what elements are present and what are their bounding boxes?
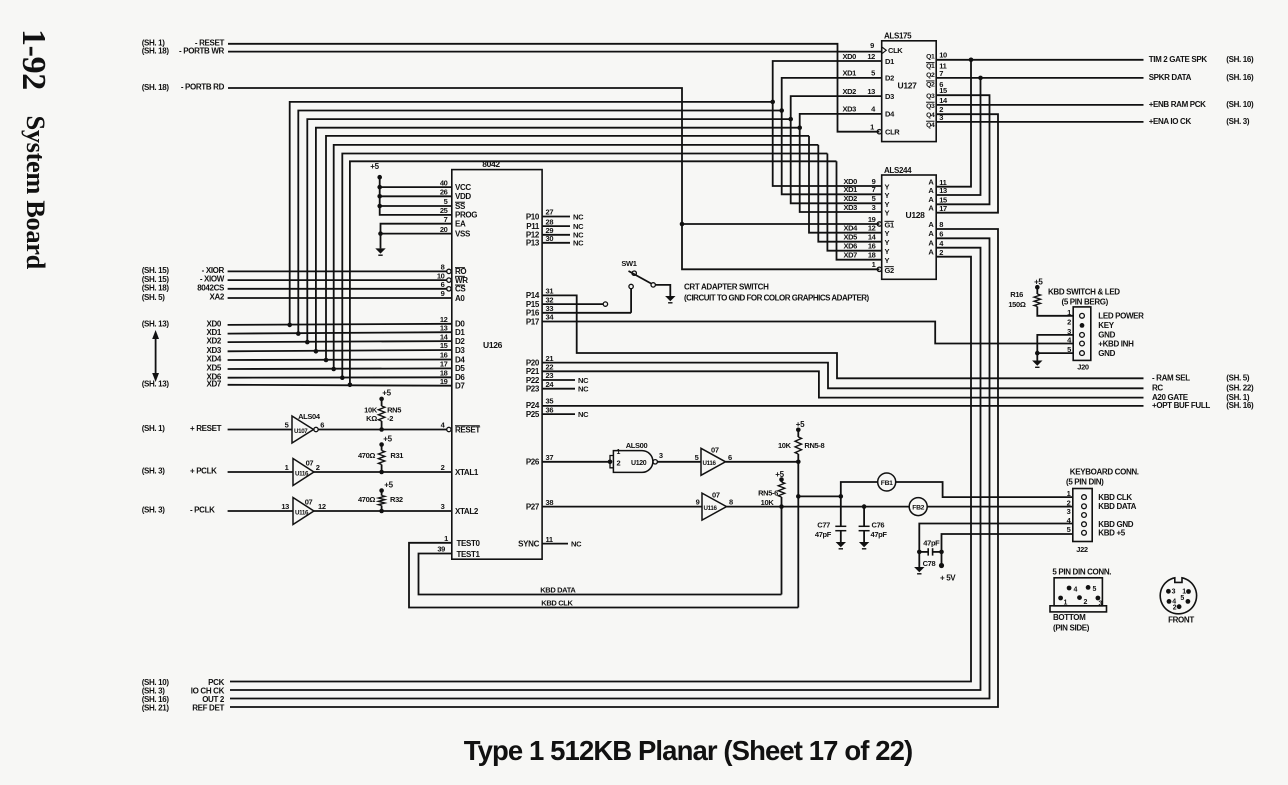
net P26 to U120 [542, 461, 610, 463]
svg-text:10: 10 [939, 51, 947, 60]
ground (SW1) [665, 296, 675, 301]
svg-text:22: 22 [546, 363, 554, 372]
svg-text:U116: U116 [295, 510, 309, 517]
svg-text:33: 33 [546, 304, 554, 313]
svg-text:FB2: FB2 [912, 504, 924, 511]
svg-text:Q1: Q1 [926, 54, 935, 61]
wire SW1 to ground [655, 285, 670, 296]
net XD2 (bus: 8042 D2, U127/U128) [228, 341, 452, 342]
svg-text:- RAM SEL: - RAM SEL [1152, 374, 1190, 383]
svg-text:2: 2 [1067, 498, 1071, 507]
svg-text:XTAL1: XTAL1 [455, 468, 479, 477]
wire XD4 bus L [326, 136, 809, 360]
wire FB1 to J22 pin1 KBD CLK [896, 482, 1073, 497]
connector DIN bottom view [1054, 578, 1102, 606]
svg-text:ALS175: ALS175 [884, 32, 912, 41]
svg-text:24: 24 [546, 380, 555, 389]
svg-text:1: 1 [1064, 600, 1068, 607]
wire VCC [380, 186, 452, 188]
svg-text:XD2: XD2 [842, 87, 856, 96]
wire KBD CLK node down [797, 462, 799, 608]
net XD7 (bus: 8042 D7, U127/U128) [228, 384, 452, 387]
svg-text:27: 27 [546, 208, 554, 217]
svg-text:(SH. 13): (SH. 13) [142, 319, 170, 328]
chip U126 8042 body [452, 170, 542, 560]
net P20 to RC (SH.22) [542, 363, 1143, 389]
wire Q3 to U128 pin 15 [936, 95, 989, 204]
svg-text:SW1: SW1 [621, 259, 636, 268]
svg-text:GND: GND [1098, 349, 1115, 358]
svg-text:Y: Y [885, 209, 890, 218]
net P15 test point [542, 303, 603, 305]
wire U107 out to RESET pin [318, 429, 447, 431]
svg-text:12: 12 [867, 52, 875, 61]
svg-text:P23: P23 [526, 385, 540, 394]
svg-text:System Board: System Board [21, 116, 51, 270]
junction XD6 bus riser [340, 375, 345, 380]
svg-text:D3: D3 [455, 346, 465, 355]
svg-text:07: 07 [711, 445, 719, 454]
svg-text:2: 2 [316, 463, 320, 472]
wire XD0 bus L [290, 102, 773, 325]
bus range arrow [155, 336, 157, 376]
junction C78 left [917, 550, 922, 555]
svg-text:NC: NC [578, 410, 589, 419]
svg-text:Q1: Q1 [926, 63, 935, 70]
junction XD2 at U127 riser [788, 117, 793, 122]
svg-text:7: 7 [939, 69, 943, 78]
svg-text:C76: C76 [872, 521, 885, 530]
wire XD4 drop to U128 [809, 136, 882, 233]
wire G1 enable branch [682, 223, 879, 225]
svg-text:8: 8 [939, 220, 943, 229]
junction XD0 bus riser [287, 323, 292, 328]
svg-text:11: 11 [546, 535, 553, 544]
svg-text:20: 20 [440, 225, 448, 234]
svg-text:R31: R31 [390, 451, 403, 460]
svg-text:17: 17 [939, 204, 947, 213]
svg-text:47pF: 47pF [815, 530, 832, 539]
svg-text:P13: P13 [526, 239, 540, 248]
svg-text:5: 5 [1093, 586, 1097, 593]
net +ENA IO CK (SH.3) [936, 121, 1143, 123]
svg-text:- XIOW: - XIOW [200, 275, 225, 284]
junction XD7 bus riser [348, 383, 353, 388]
svg-text:XD6: XD6 [843, 242, 857, 251]
svg-text:KBD CLK: KBD CLK [1098, 493, 1132, 502]
svg-text:- PCLK: - PCLK [190, 506, 215, 515]
junction XD2 bus riser [305, 340, 310, 345]
wire U116 out to XTAL1 [314, 471, 452, 473]
svg-text:U127: U127 [898, 81, 918, 91]
svg-text:XD1: XD1 [843, 185, 857, 194]
svg-text:3: 3 [1172, 589, 1176, 596]
svg-text:(5 PIN BERG): (5 PIN BERG) [1062, 298, 1109, 307]
junction VSS [378, 231, 383, 236]
svg-text:D4: D4 [455, 355, 465, 364]
svg-text:CLK: CLK [888, 46, 903, 55]
svg-text:Type 1 512KB Planar (Sheet 17: Type 1 512KB Planar (Sheet 17 of 22) [464, 735, 913, 766]
svg-text:13: 13 [440, 323, 448, 332]
svg-text:2: 2 [939, 248, 943, 257]
svg-text:2: 2 [1084, 599, 1088, 606]
svg-text:U107: U107 [294, 428, 308, 435]
svg-text:J20: J20 [1077, 363, 1089, 372]
svg-text:P15: P15 [526, 300, 540, 309]
svg-text:LED POWER: LED POWER [1098, 312, 1144, 321]
svg-text:NC: NC [573, 222, 584, 231]
junction XD5 bus riser [331, 367, 336, 372]
svg-text:XA2: XA2 [209, 293, 224, 302]
svg-text:XD1: XD1 [842, 69, 856, 78]
svg-text:Y: Y [885, 247, 890, 256]
svg-text:U126: U126 [483, 340, 503, 350]
svg-text:- XIOR: - XIOR [202, 266, 225, 275]
wire to FB1 [798, 482, 877, 496]
wire XD0 riser to U127 D1 and U128 [773, 61, 882, 186]
junction XD3 at U127 riser [797, 125, 802, 130]
connector J22 body [1073, 489, 1092, 542]
net SPKR DATA (SH.16) [936, 77, 1143, 79]
svg-text:8: 8 [441, 263, 445, 272]
svg-text:XD2: XD2 [206, 337, 221, 346]
net TIM 2 GATE SPK (SH.16) [936, 59, 1143, 61]
svg-text:16: 16 [440, 351, 448, 360]
svg-text:5: 5 [871, 69, 875, 78]
DIN front pins [1166, 589, 1171, 594]
svg-text:5 PIN DIN CONN.: 5 PIN DIN CONN. [1052, 568, 1111, 577]
svg-text:J22: J22 [1076, 545, 1088, 554]
svg-text:(SH. 16): (SH. 16) [1226, 401, 1254, 410]
svg-text:CS: CS [455, 285, 466, 294]
svg-text:1: 1 [1067, 308, 1071, 317]
svg-text:3: 3 [1099, 601, 1103, 608]
junction Q2 readback [978, 76, 983, 81]
svg-text:3: 3 [872, 203, 876, 212]
svg-text:+KBD INH: +KBD INH [1098, 339, 1134, 348]
svg-text:RN5-6: RN5-6 [758, 488, 778, 497]
junction C78 right [939, 550, 944, 555]
wire Q1 readback to U128 pin 11 [936, 60, 971, 187]
svg-text:D1: D1 [885, 57, 894, 66]
svg-text:RN5-8: RN5-8 [804, 441, 824, 450]
svg-text:- PORTB WR: - PORTB WR [179, 46, 225, 55]
svg-text:1: 1 [872, 260, 876, 269]
svg-text:(SH. 18): (SH. 18) [142, 46, 170, 55]
wire Q2 readback to U128 pin 13 [936, 78, 980, 195]
J22 pin contacts [1082, 495, 1087, 500]
svg-text:REF DET: REF DET [192, 704, 224, 713]
capacitor C76 47pF [863, 507, 865, 527]
svg-text:XD3: XD3 [842, 105, 856, 114]
svg-text:13: 13 [867, 87, 875, 96]
svg-text:BOTTOM: BOTTOM [1053, 613, 1086, 622]
svg-text:Q4: Q4 [926, 122, 935, 129]
svg-text:SS: SS [455, 202, 466, 211]
svg-text:(SH. 22): (SH. 22) [1226, 384, 1254, 393]
svg-text:+ENB RAM PCK: +ENB RAM PCK [1149, 100, 1206, 109]
svg-text:KBD DATA: KBD DATA [1098, 502, 1136, 511]
net XD4 (bus: 8042 D4, U127/U128) [228, 359, 452, 362]
svg-text:XD5: XD5 [843, 233, 857, 242]
svg-text:5: 5 [872, 194, 876, 203]
svg-text:KΩ: KΩ [366, 414, 377, 423]
svg-text:+ PCLK: + PCLK [190, 467, 217, 476]
svg-text:4: 4 [1074, 587, 1078, 594]
net P27 to U116 pin9 [542, 506, 702, 508]
svg-text:P14: P14 [526, 291, 540, 300]
svg-text:+OPT BUF FULL: +OPT BUF FULL [1152, 401, 1210, 410]
svg-text:14: 14 [440, 332, 449, 341]
svg-text:U128: U128 [906, 210, 926, 220]
svg-text:25: 25 [440, 206, 448, 215]
svg-text:-2: -2 [387, 414, 393, 423]
svg-text:+5: +5 [383, 435, 392, 444]
net TEST0 KBD CLK loop [409, 543, 798, 608]
svg-text:NC: NC [573, 212, 584, 221]
svg-text:470Ω: 470Ω [358, 451, 375, 460]
svg-text:39: 39 [437, 545, 445, 554]
svg-text:2: 2 [441, 463, 445, 472]
svg-text:C77: C77 [817, 521, 830, 530]
svg-text:21: 21 [546, 354, 554, 363]
svg-text:10: 10 [437, 271, 445, 280]
svg-text:VCC: VCC [455, 183, 471, 192]
svg-text:14: 14 [868, 233, 877, 242]
wire XD2 bus L [307, 119, 790, 342]
svg-text:14: 14 [939, 96, 948, 105]
junction RN5-2 [379, 427, 384, 432]
svg-text:TIM 2 GATE SPK: TIM 2 GATE SPK [1149, 55, 1208, 64]
svg-text:P21: P21 [526, 367, 540, 376]
svg-text:XD7: XD7 [843, 251, 857, 260]
svg-text:FB1: FB1 [881, 480, 893, 487]
svg-text:(SH. 1): (SH. 1) [142, 424, 166, 433]
svg-text:6: 6 [320, 421, 324, 430]
wire KBD GND to J22 pin4 [919, 524, 1073, 552]
junction U120 inputs 1-2 [608, 460, 613, 465]
svg-text:2: 2 [617, 458, 621, 467]
svg-text:07: 07 [306, 459, 314, 468]
junction XD1 at U127 riser [779, 108, 784, 113]
svg-text:XD5: XD5 [206, 364, 221, 373]
svg-text:+5: +5 [775, 470, 784, 479]
svg-text:(PIN SIDE): (PIN SIDE) [1053, 624, 1090, 633]
svg-text:U116: U116 [295, 471, 309, 478]
chip U128 ALS244 body [882, 175, 937, 279]
wire U116 out to XTAL2 [314, 510, 452, 512]
wire SS [380, 205, 452, 207]
svg-text:(SH. 16): (SH. 16) [1226, 55, 1254, 64]
svg-text:13: 13 [281, 502, 289, 511]
svg-text:ALS04: ALS04 [298, 412, 321, 421]
wire KBD DATA node down [781, 507, 783, 595]
svg-text:30: 30 [546, 234, 554, 243]
svg-text:15: 15 [440, 341, 448, 350]
svg-text:XD4: XD4 [206, 355, 221, 364]
svg-text:(5 PIN DIN): (5 PIN DIN) [1066, 478, 1104, 487]
DIN bottom pins [1067, 586, 1072, 591]
net XD6 (bus: 8042 D6, U127/U128) [228, 376, 452, 378]
svg-text:9: 9 [441, 289, 445, 298]
svg-text:23: 23 [546, 371, 554, 380]
svg-text:Q4: Q4 [926, 112, 935, 119]
svg-text:5: 5 [1067, 525, 1071, 534]
svg-text:KBD +5: KBD +5 [1098, 529, 1125, 538]
svg-text:(SH. 18): (SH. 18) [142, 284, 170, 293]
svg-text:3: 3 [659, 451, 663, 460]
svg-text:P25: P25 [526, 410, 540, 419]
svg-text:NC: NC [571, 539, 582, 548]
svg-text:1: 1 [1067, 489, 1071, 498]
svg-text:6: 6 [441, 280, 445, 289]
ground (C77) [836, 542, 846, 547]
svg-text:8042: 8042 [482, 159, 500, 169]
capacitor C77 47pF [840, 496, 842, 526]
wire XD1 riser to U127 D2 and U128 [782, 78, 882, 194]
wire KBD +5 to J22 pin5 [942, 534, 1073, 552]
svg-text:(SH. 18): (SH. 18) [142, 83, 170, 92]
svg-text:6: 6 [939, 230, 943, 239]
net P17 to +KBD INH [542, 322, 1073, 344]
wire XD3 riser to U127 D4 and U128 [800, 114, 882, 212]
junction RN5-8 [796, 460, 801, 465]
svg-text:XD3: XD3 [206, 346, 221, 355]
svg-text:P20: P20 [526, 358, 540, 367]
svg-text:A0: A0 [455, 294, 465, 303]
junction SS [377, 204, 382, 209]
svg-text:XD3: XD3 [843, 203, 857, 212]
svg-text:(SH. 3): (SH. 3) [1226, 117, 1250, 126]
svg-text:28: 28 [546, 217, 554, 226]
net P24 to +OPT BUF FULL (SH.16) [542, 405, 1143, 407]
svg-text:3: 3 [441, 502, 445, 511]
net P16 to SW1 [542, 312, 631, 314]
svg-text:+ 5V: + 5V [940, 574, 956, 583]
wire U116 out to RN5-8 node [726, 461, 799, 463]
svg-text:Q2: Q2 [926, 72, 935, 79]
svg-text:(SH. 21): (SH. 21) [142, 704, 170, 713]
svg-text:1: 1 [617, 449, 621, 456]
wire XD6 drop to U128 [827, 154, 881, 251]
svg-text:NC: NC [578, 385, 589, 394]
svg-text:32: 32 [546, 295, 554, 304]
junction XD0 at U127 riser [770, 100, 775, 105]
svg-text:37: 37 [546, 453, 554, 462]
svg-text:17: 17 [440, 360, 448, 369]
svg-text:Y: Y [885, 229, 890, 238]
svg-text:(SH. 10): (SH. 10) [1226, 100, 1254, 109]
svg-text:KBD CLK: KBD CLK [541, 599, 573, 608]
svg-text:3: 3 [1067, 507, 1071, 516]
svg-text:470Ω: 470Ω [358, 495, 375, 504]
svg-text:XD0: XD0 [206, 320, 221, 329]
svg-text:+5: +5 [370, 162, 379, 171]
svg-text:1: 1 [444, 534, 448, 543]
svg-text:+5: +5 [1034, 277, 1043, 286]
svg-text:5: 5 [285, 421, 289, 430]
svg-text:PROG: PROG [455, 211, 477, 220]
svg-text:- PORTB RD: - PORTB RD [181, 83, 225, 92]
wire FB2 to J22 pin2 KBD DATA [927, 506, 1073, 508]
wire XD7 drop to U128 [837, 161, 882, 259]
svg-text:1: 1 [285, 463, 289, 472]
junction VCC [377, 185, 382, 190]
svg-text:(CIRCUIT TO GND FOR COLOR GRAP: (CIRCUIT TO GND FOR COLOR GRAPHICS ADAPT… [684, 294, 870, 303]
svg-text:TEST0: TEST0 [457, 539, 481, 548]
svg-text:+5: +5 [796, 420, 805, 429]
svg-text:FRONT: FRONT [1168, 616, 1194, 625]
svg-text:(SH. 16): (SH. 16) [1226, 73, 1254, 82]
svg-text:EA: EA [455, 220, 466, 229]
svg-text:+ RESET: + RESET [190, 424, 222, 433]
connector DIN front view [1160, 578, 1196, 614]
svg-text:31: 31 [546, 287, 554, 296]
junction J20 ground [1035, 351, 1040, 356]
svg-text:5: 5 [444, 197, 448, 206]
net XD3 (bus: 8042 D3, U127/U128) [228, 350, 452, 351]
wire XD5 bus L [334, 145, 819, 369]
svg-text:35: 35 [546, 397, 554, 406]
svg-text:XD7: XD7 [206, 379, 221, 388]
capacitor C78 47pF [919, 551, 928, 553]
svg-text:7: 7 [444, 215, 448, 224]
svg-text:U116: U116 [703, 460, 717, 467]
net TEST1 KBD DATA loop [419, 554, 782, 595]
svg-text:XD0: XD0 [842, 52, 856, 61]
svg-text:Q2: Q2 [926, 82, 935, 89]
svg-text:P24: P24 [526, 401, 540, 410]
svg-text:1: 1 [870, 123, 874, 132]
svg-text:NC: NC [573, 239, 584, 248]
junction VDD [377, 194, 382, 199]
connector J20 body [1073, 307, 1091, 361]
svg-text:9: 9 [696, 498, 700, 507]
svg-text:47pF: 47pF [923, 538, 940, 547]
svg-text:VSS: VSS [455, 229, 471, 238]
svg-text:(SH. 15): (SH. 15) [142, 266, 170, 275]
svg-text:D1: D1 [455, 328, 465, 337]
junction XD3 bus riser [314, 349, 319, 354]
junction -PORTB RD / G1 [680, 222, 685, 227]
svg-text:+5: +5 [382, 389, 391, 398]
net XD1 (bus: 8042 D1, U127/U128) [228, 332, 452, 333]
svg-text:U116: U116 [704, 505, 718, 512]
net XD5 (bus: 8042 D5, U127/U128) [228, 367, 452, 370]
svg-text:VDD: VDD [455, 192, 471, 201]
svg-text:WR: WR [455, 276, 468, 285]
wire U120 out to U116 pin5 [657, 461, 701, 463]
svg-text:RO: RO [455, 267, 466, 276]
junction RN5-6 [779, 504, 784, 509]
svg-text:P27: P27 [526, 502, 540, 511]
svg-text:Q3: Q3 [926, 103, 935, 110]
svg-text:Y: Y [885, 256, 890, 265]
ground (8042 EA/VSS) [380, 234, 382, 249]
wire XD1 bus L [298, 111, 781, 334]
svg-text:SPKR DATA: SPKR DATA [1149, 73, 1192, 82]
net XD0 (bus: 8042 D0, U127/U128) [228, 324, 452, 325]
svg-text:9: 9 [870, 41, 874, 50]
svg-text:C78: C78 [923, 559, 936, 568]
junction FB1 branch [796, 494, 801, 499]
svg-text:+ENA IO CK: +ENA IO CK [1149, 117, 1192, 126]
svg-text:TEST1: TEST1 [457, 550, 481, 559]
svg-text:26: 26 [440, 188, 448, 197]
chip U127 ALS175 body [882, 41, 937, 142]
svg-text:D4: D4 [885, 110, 895, 119]
junction R31 [379, 470, 384, 475]
